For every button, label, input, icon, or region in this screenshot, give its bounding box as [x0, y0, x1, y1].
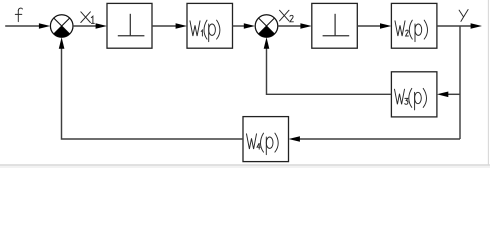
label W1(p)	[190, 20, 220, 41]
wire feedback vertical from output	[459, 26, 461, 139]
arrow up into S2	[264, 37, 270, 48]
label W4(p)	[247, 133, 279, 155]
summer S1	[50, 15, 73, 38]
label W3(p)	[395, 88, 427, 110]
wire to W4 input	[300, 138, 461, 140]
wire S1 to relay block N1	[73, 25, 96, 27]
wire W3 output to S2	[267, 48, 392, 94]
block W4	[243, 117, 289, 162]
arrow into S2	[244, 23, 255, 29]
wire W1 to summer S2	[233, 25, 245, 27]
arrow into N1	[96, 23, 107, 29]
wire N1 to W1	[152, 25, 176, 27]
relay symbol in N1	[118, 14, 145, 36]
block W3	[391, 72, 437, 117]
page bottom border	[0, 164, 490, 166]
wire N2 to W2	[357, 25, 380, 27]
node y label	[459, 10, 468, 22]
wire f input	[5, 25, 39, 27]
arrow into W3	[437, 92, 448, 98]
page bottom margin strip	[0, 165, 490, 168]
arrow into W2	[380, 23, 391, 29]
relay block N2	[312, 3, 358, 48]
wire W4 output to S1	[62, 48, 244, 139]
arrow into N2	[300, 23, 311, 29]
relay symbol in N2	[323, 14, 350, 36]
arrow into summer S1	[39, 23, 50, 29]
node x1 label	[81, 12, 95, 24]
relay block N1	[107, 3, 152, 48]
block W1	[187, 3, 233, 48]
arrow up into S1	[59, 37, 65, 48]
arrow into W1	[176, 23, 187, 29]
page right border	[487, 0, 489, 165]
node x2 label	[280, 10, 294, 22]
output arrow	[471, 23, 482, 29]
block W2	[391, 3, 437, 48]
summer S2	[255, 15, 278, 38]
wire W2 to output y	[437, 25, 471, 27]
wire S2 to relay block N2	[278, 25, 301, 27]
label W2(p)	[395, 20, 428, 41]
node f label	[15, 8, 22, 22]
wire to W3 input	[448, 93, 460, 95]
arrow into W4	[289, 136, 300, 142]
